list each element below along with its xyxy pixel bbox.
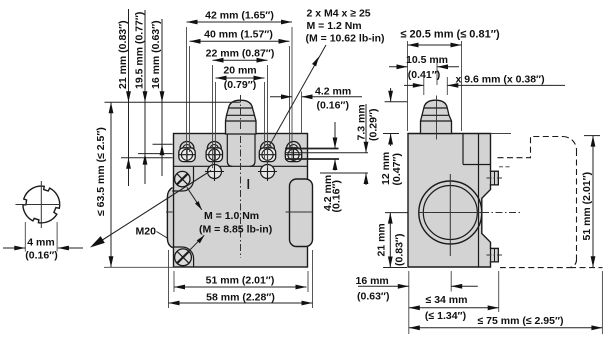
svg-text:(0.16″): (0.16″) xyxy=(317,100,349,112)
front plunger step line 1 xyxy=(228,107,253,109)
dim 4mm line xyxy=(3,247,25,249)
dim 42mm line xyxy=(187,21,293,23)
dim 51mm line xyxy=(174,286,307,288)
dim 42mm ext lines xyxy=(186,27,188,158)
side gland boss inner circle xyxy=(423,186,477,240)
svg-text:7.3 mm: 7.3 mm xyxy=(355,104,367,140)
svg-text:(≤ 1.34″): (≤ 1.34″) xyxy=(425,310,466,322)
dim 20.5mm ext lines xyxy=(407,41,409,131)
dim 4.2mm mid line xyxy=(334,122,336,149)
terminal level tick A xyxy=(285,148,339,150)
svg-text:≤ 34 mm: ≤ 34 mm xyxy=(426,294,468,306)
front view vertical centerline (dash-dot) xyxy=(240,95,242,132)
gland axis tick left of front body xyxy=(166,211,173,213)
side circle horizontal centerline xyxy=(419,212,482,214)
torque leader to bottom screw xyxy=(184,235,205,256)
svg-text:≤ 20.5 mm (≤ 0.81″): ≤ 20.5 mm (≤ 0.81″) xyxy=(400,29,500,41)
svg-text:(0.83″): (0.83″) xyxy=(394,234,406,266)
dim 75mm ext line right xyxy=(601,271,603,334)
svg-text:(M = 10.62 lb-in): (M = 10.62 lb-in) xyxy=(306,33,385,45)
dim 19.5mm line xyxy=(144,10,146,184)
envelope bottom dashed extension xyxy=(570,267,603,269)
side plunger step line 1 xyxy=(424,107,448,109)
front plunger step line 2 xyxy=(227,114,255,116)
dim 20mm line xyxy=(216,77,265,79)
svg-text:(M = 8.85 lb-in): (M = 8.85 lb-in) xyxy=(199,224,272,236)
svg-text:(0.63″): (0.63″) xyxy=(357,291,389,303)
svg-text:21 mm (0.83″): 21 mm (0.83″) xyxy=(117,20,129,89)
dim 34mm ext line right xyxy=(498,271,500,312)
dim 16mm left line xyxy=(161,19,163,176)
svg-text:2 x M4 x ≥ 25: 2 x M4 x ≥ 25 xyxy=(307,8,371,20)
M20 leader xyxy=(157,232,169,239)
dim 7.3mm line xyxy=(365,104,367,153)
envelope step dash xyxy=(499,166,512,168)
side view inner face line xyxy=(478,134,480,268)
svg-text:M = 1.0 Nm: M = 1.0 Nm xyxy=(204,210,259,222)
dim 51mm right tick xyxy=(584,135,600,137)
svg-text:58 mm (2.28″): 58 mm (2.28″) xyxy=(206,291,275,303)
dim 21mm mid bottom tick xyxy=(383,267,407,269)
svg-text:51 mm (2.01″): 51 mm (2.01″) xyxy=(206,274,275,286)
front view body (grey housing) xyxy=(174,134,308,268)
dim 20.5mm line xyxy=(408,44,462,46)
svg-text:16 mm: 16 mm xyxy=(356,275,389,287)
terminal level tick D xyxy=(320,172,368,174)
tab upper axis dash xyxy=(487,177,504,179)
terminal screw lower-right xyxy=(261,165,275,179)
pocket around bottom-left screw xyxy=(172,247,193,267)
svg-text:≤ 63.5 mm (≤ 2.5″): ≤ 63.5 mm (≤ 2.5″) xyxy=(95,127,107,216)
tab lower axis dash xyxy=(487,254,504,256)
svg-text:x 9.6 mm (x 0.38″): x 9.6 mm (x 0.38″) xyxy=(456,74,545,86)
cover screw bottom-left (X slot) xyxy=(175,249,192,266)
terminal clamp 4 xyxy=(287,142,301,149)
detail circle crosshair xyxy=(16,204,61,206)
terminal clamp 3 xyxy=(261,142,275,149)
plunger top reference line xyxy=(105,101,241,103)
terminal level tick B xyxy=(285,152,368,154)
dim 12mm tick xyxy=(383,133,399,135)
svg-text:(0.47″): (0.47″) xyxy=(391,153,403,185)
svg-text:21 mm: 21 mm xyxy=(376,223,388,256)
terminal screw lower-left xyxy=(208,165,222,179)
dim 21mm mid top tick xyxy=(385,212,419,214)
svg-text:16 mm (0.63″): 16 mm (0.63″) xyxy=(150,20,162,89)
dim 21mm left tick (extension to body) xyxy=(121,157,173,159)
svg-text:(0.29″): (0.29″) xyxy=(368,109,380,141)
dim 21mm mid line xyxy=(389,213,391,268)
front plunger step line 3 xyxy=(226,120,257,122)
front plunger channel left wall xyxy=(227,134,232,167)
svg-text:(0.16″): (0.16″) xyxy=(25,249,57,261)
detail view leader arrow xyxy=(93,171,211,247)
front plunger (grey fill) xyxy=(226,100,257,134)
dim 4.2mm top ext line xyxy=(301,92,303,134)
terminal clamp 1 xyxy=(180,142,194,149)
dim 16mm side ext lines xyxy=(408,271,410,334)
dim 9.6mm ticks xyxy=(423,77,425,95)
detail circle (plunger section with notches) xyxy=(23,186,60,223)
side view body (grey housing) xyxy=(408,134,498,268)
dim 58mm line xyxy=(169,302,313,304)
dim 51mm ext lines xyxy=(173,271,175,292)
dim 63.5mm bottom ext xyxy=(104,266,174,268)
side plunger (grey fill) xyxy=(421,100,452,133)
front view left cable-gland bulge xyxy=(167,188,172,248)
svg-text:(0.16″): (0.16″) xyxy=(331,180,343,212)
M4 note leader xyxy=(268,45,326,148)
svg-text:M = 1.2 Nm: M = 1.2 Nm xyxy=(307,20,362,32)
svg-text:4 mm: 4 mm xyxy=(27,236,54,248)
svg-text:4.2 mm: 4.2 mm xyxy=(315,86,351,98)
front view right side rounded cover bulge xyxy=(290,179,313,247)
dim 19.5mm tick (extension to body) xyxy=(138,153,173,155)
dim 63.5mm line xyxy=(110,102,112,267)
dim 16mm side line xyxy=(358,285,409,287)
dim 40mm ext lines xyxy=(189,46,191,152)
svg-text:10.5 mm: 10.5 mm xyxy=(406,54,448,66)
svg-text:42 mm (1.65″): 42 mm (1.65″) xyxy=(205,9,274,21)
dim 40mm line xyxy=(190,40,290,42)
front face slot mark xyxy=(247,179,249,189)
side terminal tab upper xyxy=(491,171,499,185)
cover screw top-left (X slot) xyxy=(175,171,190,186)
svg-text:22 mm (0.87″): 22 mm (0.87″) xyxy=(206,48,275,60)
front terminal block bottom edge xyxy=(174,165,308,167)
dim 22mm line xyxy=(213,59,268,61)
svg-text:(0.79″): (0.79″) xyxy=(224,79,256,91)
dim 58mm ext lines xyxy=(168,250,170,308)
dim 9.6mm line xyxy=(404,84,424,86)
svg-text:M20: M20 xyxy=(136,226,157,238)
side view shoulder line xyxy=(463,164,491,166)
max-extent dashed envelope xyxy=(498,137,564,158)
dim 22mm ext lines xyxy=(212,65,214,168)
side plunger axis line xyxy=(436,96,438,140)
dim 10.5mm ext tick xyxy=(436,58,438,85)
front view right bulge axis line xyxy=(286,211,313,213)
dim 20mm ext lines xyxy=(215,82,217,160)
side plunger step line 3 xyxy=(421,120,452,122)
dim 51mm right line xyxy=(592,136,594,268)
side circle vertical centerline xyxy=(449,174,451,256)
terminal level tick C xyxy=(285,158,339,160)
dim 21mm left line xyxy=(128,9,130,186)
pocket around top-left screw xyxy=(172,167,193,191)
side view head step vertical xyxy=(462,134,464,165)
svg-text:19.5 mm (0.77″): 19.5 mm (0.77″) xyxy=(134,12,146,89)
dim 34mm line xyxy=(409,307,499,309)
terminal clamp 2 xyxy=(207,142,221,149)
side terminal tab lower xyxy=(491,249,499,262)
svg-text:40 mm (1.57″): 40 mm (1.57″) xyxy=(204,29,273,41)
svg-text:51 mm (2.01″): 51 mm (2.01″) xyxy=(581,172,593,241)
side view top edge extension xyxy=(491,133,512,135)
svg-text:≤ 75 mm (≤ 2.95″): ≤ 75 mm (≤ 2.95″) xyxy=(478,315,564,327)
side plunger step line 2 xyxy=(422,114,449,116)
dim 4mm ext lines xyxy=(24,222,26,252)
dim 10.5mm line xyxy=(389,66,408,68)
dim 75mm line xyxy=(409,327,603,329)
side plunger top tick xyxy=(385,101,408,103)
side gland boss outer circle xyxy=(419,181,482,244)
front plunger channel right wall xyxy=(250,134,255,167)
torque leader to top screw xyxy=(187,187,202,210)
dim 16mm left tick (extension to body) xyxy=(153,143,173,145)
dim 4.2mm top line xyxy=(270,96,292,98)
svg-text:20 mm: 20 mm xyxy=(223,65,256,77)
dim 12mm line xyxy=(390,88,392,102)
